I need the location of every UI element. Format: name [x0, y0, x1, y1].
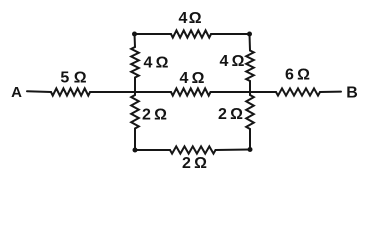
resistor R7 4ohm right vertical: [246, 51, 254, 81]
svg-text:B: B: [346, 85, 358, 102]
wire top rail left: [135, 33, 172, 35]
resistor R1 5ohm: [51, 88, 90, 95]
resistor R5 2ohm bottom: [170, 146, 216, 153]
wire A lead: [27, 90, 51, 93]
wire bottom rail right: [216, 149, 251, 152]
wire left column upper: [134, 34, 137, 47]
resistor R6 4ohm left vertical: [131, 47, 139, 77]
wire B lead: [320, 91, 341, 93]
resistor R3 4ohm middle: [171, 88, 210, 95]
resistor R9 2ohm right vertical: [246, 95, 254, 129]
svg-text:2 Ω: 2 Ω: [218, 106, 243, 123]
wire top rail right: [211, 33, 250, 35]
svg-text:4 Ω: 4 Ω: [178, 10, 201, 27]
svg-text:4 Ω: 4 Ω: [144, 55, 169, 72]
wire left column lower: [134, 129, 136, 151]
resistor R4 6ohm: [276, 88, 320, 95]
wire right column lower: [249, 129, 251, 150]
wire bottom rail left: [135, 149, 170, 151]
node bottom-right junction dot: [248, 147, 253, 152]
svg-text:A: A: [11, 84, 22, 101]
node bottom-left junction dot: [133, 148, 138, 153]
wire mid-left: [90, 91, 171, 93]
svg-text:4 Ω: 4 Ω: [180, 70, 205, 87]
wire mid-right: [211, 91, 277, 93]
svg-text:2 Ω: 2 Ω: [182, 155, 207, 172]
wire left column middle: [134, 78, 136, 96]
node top-right junction dot: [247, 32, 252, 37]
node top-left junction dot: [132, 32, 137, 37]
svg-text:6 Ω: 6 Ω: [285, 67, 310, 84]
resistor R8 2ohm left vertical: [131, 95, 139, 129]
wire right column middle: [249, 81, 251, 95]
svg-text:2 Ω: 2 Ω: [142, 107, 167, 124]
resistor R2 4ohm top: [171, 30, 211, 37]
wire right column upper: [249, 34, 252, 51]
svg-text:4 Ω: 4 Ω: [220, 53, 245, 70]
svg-text:5 Ω: 5 Ω: [60, 70, 86, 87]
